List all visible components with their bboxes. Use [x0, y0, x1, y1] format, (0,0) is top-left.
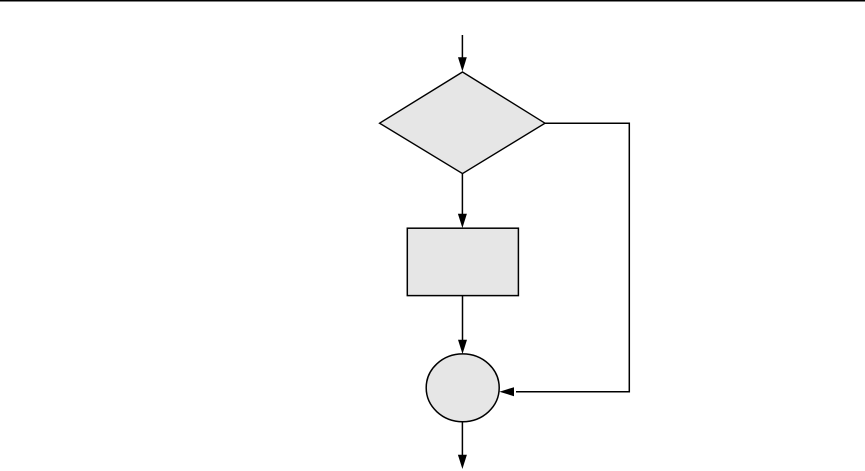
top rule	[0, 0, 865, 2]
arrowhead: entry into decision	[458, 57, 467, 71]
arrowhead: exit bottom	[458, 455, 467, 469]
process box	[407, 228, 518, 295]
arrowhead: into connector (top)	[458, 340, 467, 354]
arrowhead: into connector (right)	[499, 387, 514, 396]
wire: process to connector	[462, 296, 464, 342]
wire: bypass loop from decision right vertex	[516, 123, 629, 391]
wire: entry into decision	[461, 35, 463, 60]
wire: decision to process	[461, 174, 463, 216]
connector circle	[426, 354, 499, 422]
arrowhead: into process	[458, 214, 467, 228]
wire: exit below connector	[461, 422, 463, 457]
decision diamond	[380, 72, 545, 174]
